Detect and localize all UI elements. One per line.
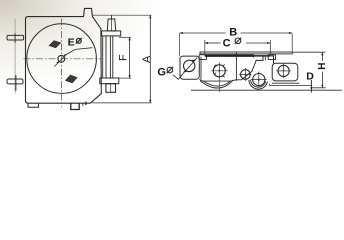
svg-text:E: E [68,36,75,48]
G slash arrow upper [192,60,196,62]
gear housing inner arc [251,80,266,87]
svg-text:D: D [306,70,314,82]
dim A arrow top [149,15,151,18]
label G phi symbol [167,67,173,73]
bottom U tab center [71,103,79,109]
bolt hex head (upper right) [107,19,115,31]
wheel1 rim ticks [214,64,225,77]
dim F extension top [119,36,131,38]
dim C arrow right [267,42,270,44]
housing tab inner line [264,56,266,61]
dim C arrow left [205,42,208,44]
G slash arrow lower [183,70,187,72]
svg-text:C: C [223,38,231,50]
left bracket plate [180,56,199,79]
dim C extension left [204,40,206,54]
wheel1 bottom flange arc outer [200,80,233,88]
dim D arrow [310,87,312,90]
svg-text:H: H [317,63,328,70]
dim C line [205,42,221,44]
dim A extension bottom [92,102,152,104]
svg-text:G: G [157,67,166,79]
bracket foot line upper [272,82,299,84]
leader arrow lower [56,61,59,64]
dim H arrow bottom [321,85,323,88]
middle idler circle [241,70,251,80]
wheel1 vertical centerline to rail [218,80,220,93]
G slash diameter line [181,58,198,77]
gear wheel circle [253,74,265,86]
bracket foot line lower / D top extension [270,84,313,86]
housing diagonal arm [241,56,273,80]
gear crosshair [258,72,260,88]
wheel1 hub circle [213,65,225,77]
dim H line lower [321,72,323,88]
rail top line [191,89,342,91]
svg-text:A: A [141,55,153,63]
bolt top stud [111,15,113,19]
bottom tick 1 [82,103,84,106]
right bolt crosshair [283,64,285,79]
dim B extension left [179,34,181,57]
gear housing outer arc [249,80,268,89]
plate stem lines [102,36,104,78]
pin centerline (vertical faint bar left side) [14,19,16,94]
wheel vertical centerline [61,19,63,108]
pin P1 cross tick [14,33,16,43]
svg-text:F: F [117,54,129,61]
clamp nub left [199,55,206,60]
dim F arrow bottom [129,75,131,78]
dim A extension top [93,14,152,16]
side plate right edge [235,52,237,80]
pin P2 cross tick [15,75,17,91]
clamp nub right [268,55,275,60]
diamond spoke hole 1 [48,39,62,49]
leader arrow upper [64,54,66,57]
washer upper [102,31,121,36]
dim H top extension [292,51,325,53]
leader line E [54,48,92,67]
dim C extension right [269,40,271,54]
dim F extension bottom [119,77,131,79]
bolt head facet line [111,19,113,31]
wheel horizontal centerline [24,58,101,60]
top plate [200,52,292,54]
dim D line [310,80,312,93]
dim B arrow right [289,32,292,34]
hub bore circle [58,55,65,62]
dim A arrow bottom [149,100,151,103]
wheel1 crosshair [218,63,220,80]
dim B line [180,32,226,34]
wheel1 bottom tread arc inner [204,81,231,86]
dim H arrow top [321,52,323,55]
bottom tick 2 [85,102,87,105]
pin P2 (lower left pin) [7,79,23,84]
clamp band (thick) [205,55,254,57]
label H [317,63,328,70]
dim F line [129,37,131,78]
pin P1 (upper left pin) [7,35,24,40]
right bracket plate [272,63,298,81]
right bolt circle [278,65,289,76]
body side plate outline [26,8,102,103]
washer lower [100,78,119,84]
dim A line [149,15,151,103]
wheel circle [27,24,97,94]
label E phi symbol [76,38,81,43]
dim H line upper [321,52,323,61]
dim B extension right [291,34,293,52]
label A [141,55,153,63]
label F [117,54,129,61]
label C phi symbol [235,38,241,44]
G bolt circle [184,60,195,71]
dim B arrow left [180,32,183,34]
nut lower [106,84,116,93]
side plate bottom edge [199,79,241,81]
dim H bottom extension [312,87,326,89]
diamond spoke hole 2 [64,74,78,85]
dim F arrow top [129,37,131,40]
side plate left edge [200,57,202,80]
bottom guard lip left [28,103,39,107]
G leader tail [173,75,181,80]
middle idler crosshair [244,68,246,81]
